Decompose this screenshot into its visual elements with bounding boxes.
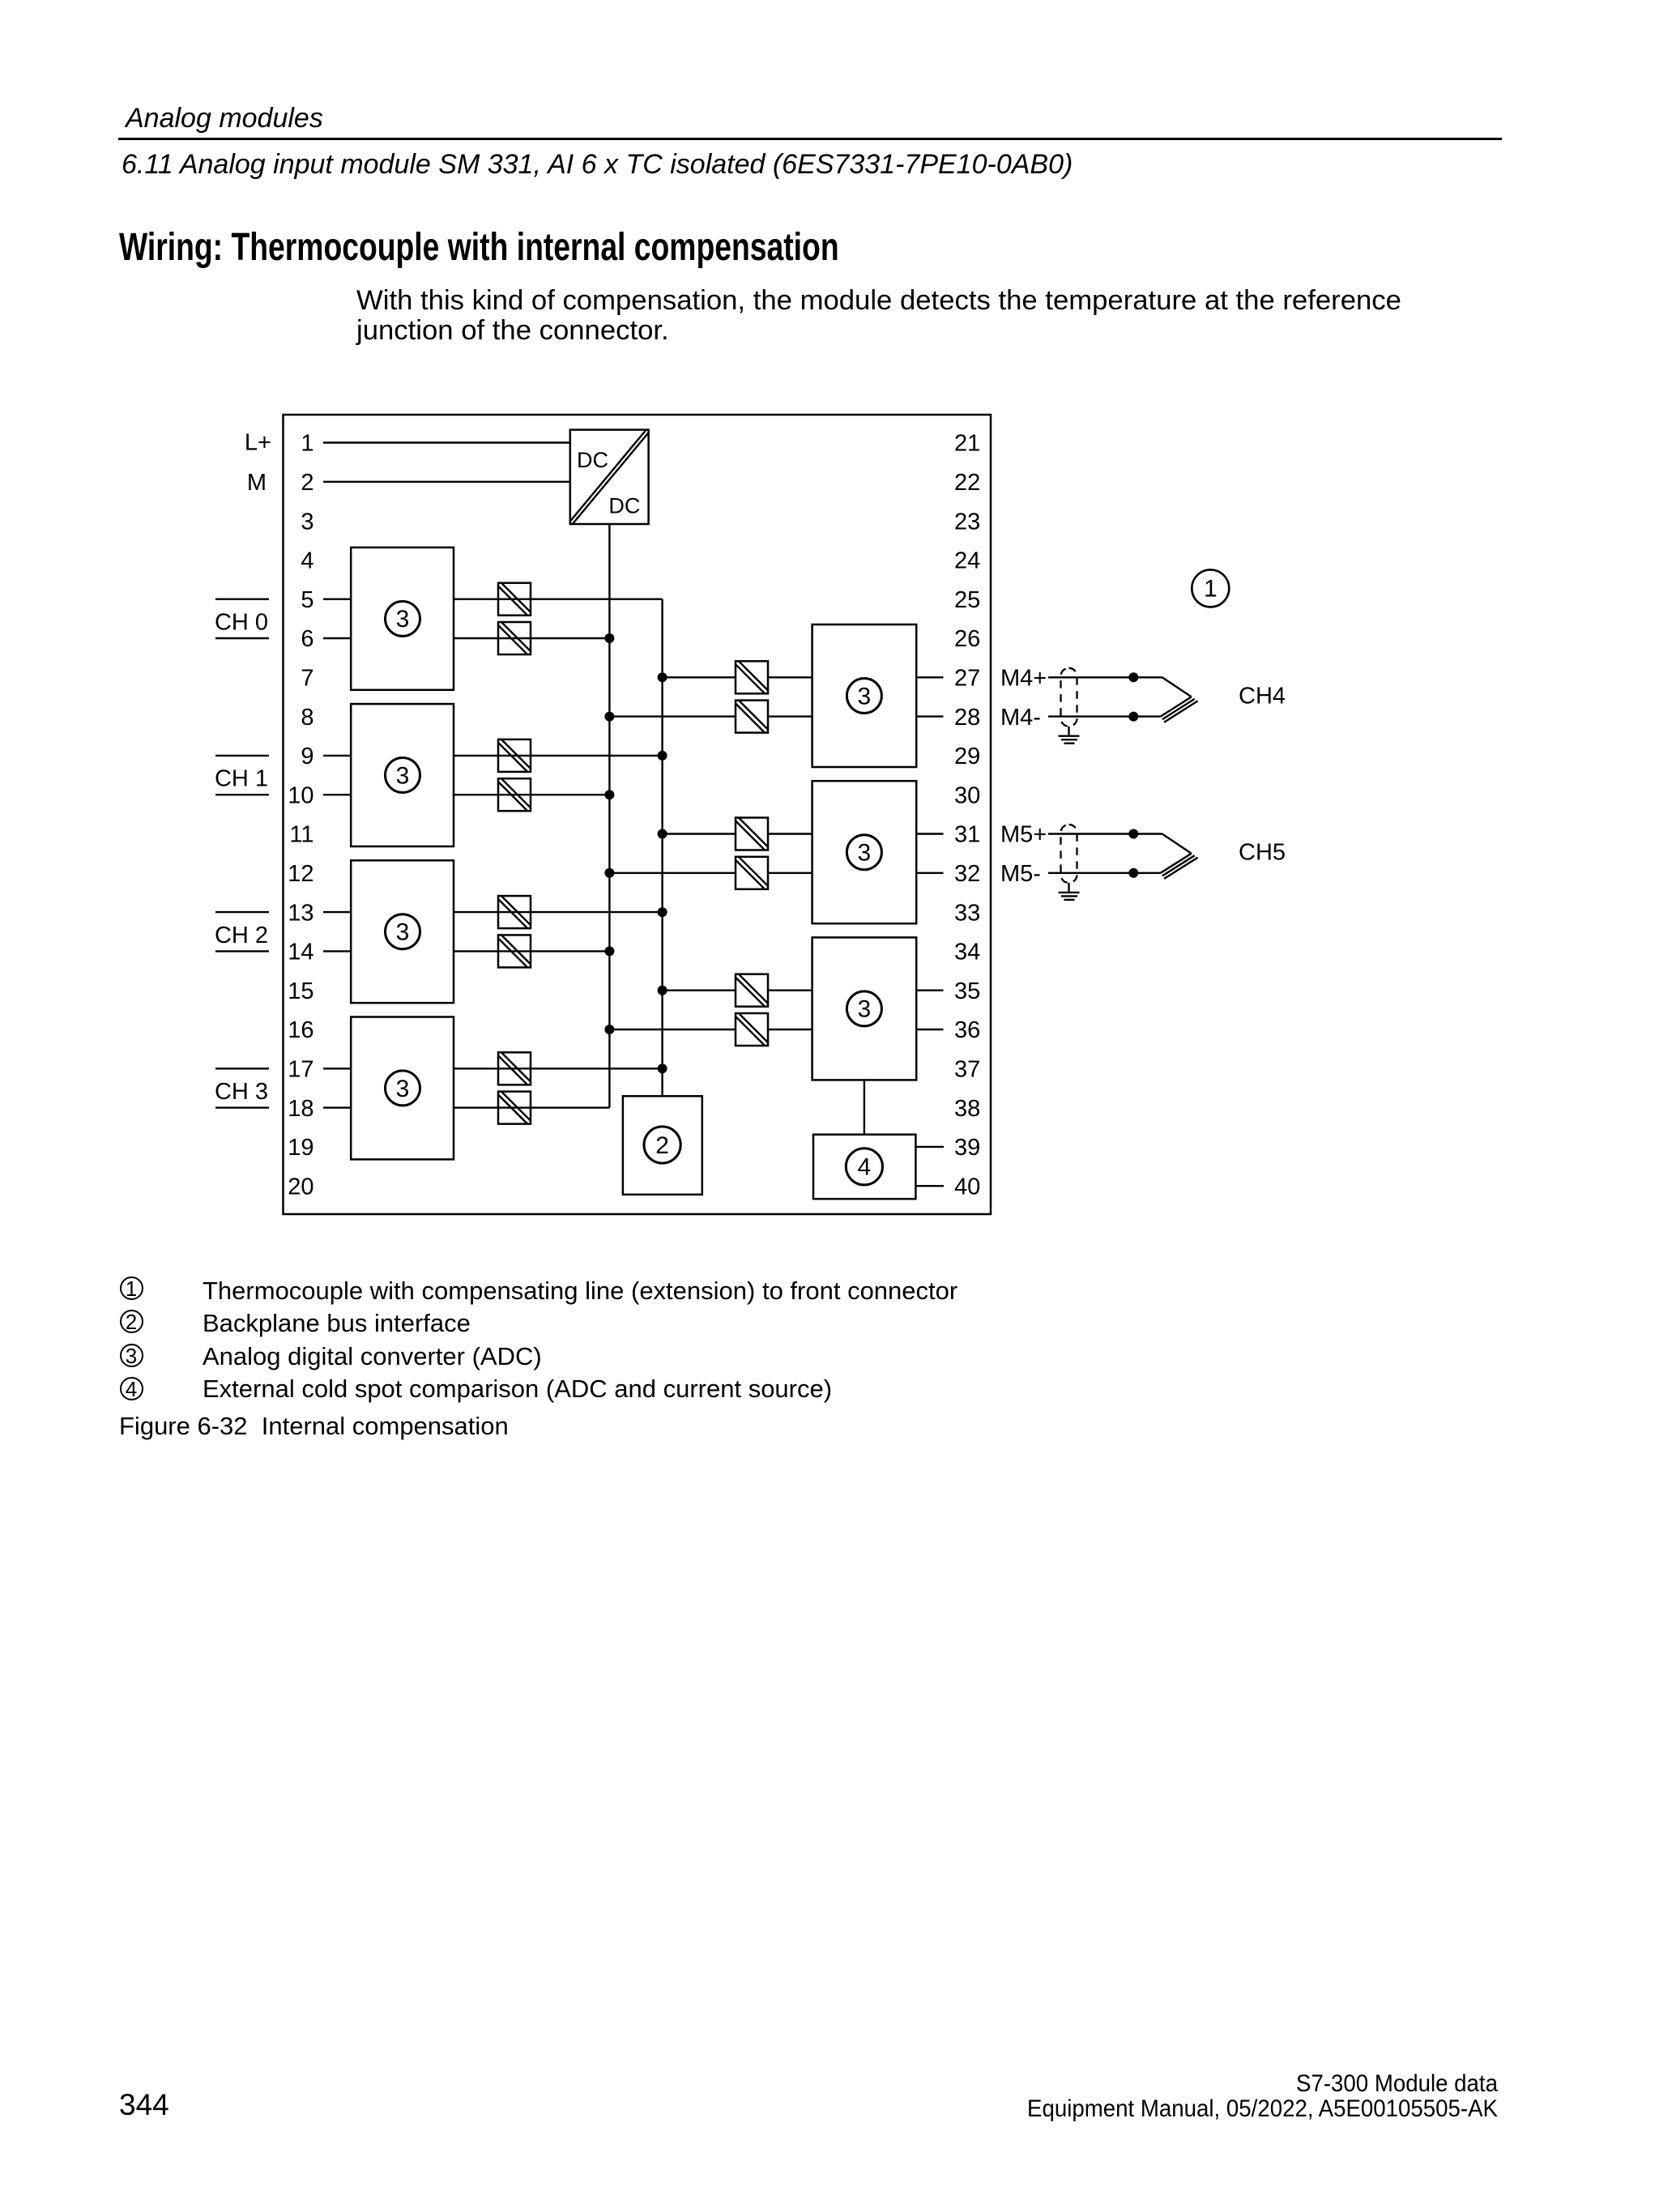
ADC U8 (internal reference) <box>812 937 917 1080</box>
optocoupler pin 13 path <box>498 896 531 928</box>
optocoupler pin 31 path <box>736 818 768 850</box>
ADC U2 symbol 3 <box>386 758 420 793</box>
wire M4- lead <box>1048 715 1161 717</box>
svg-text:CH 0: CH 0 <box>215 610 268 636</box>
svg-text:21: 21 <box>954 431 980 457</box>
svg-text:3: 3 <box>858 996 872 1023</box>
svg-text:4: 4 <box>301 548 313 574</box>
wire M5+ lead <box>1048 833 1162 834</box>
DC/DC converter U5 <box>570 430 649 524</box>
ADC U8 symbol 3 <box>847 991 881 1026</box>
channel label CH 2 <box>215 912 269 951</box>
junction bus A pin 6 row <box>604 633 614 643</box>
svg-text:7: 7 <box>301 666 313 692</box>
cold spot symbol 4 <box>846 1149 882 1185</box>
svg-text:3: 3 <box>858 840 872 867</box>
svg-text:3: 3 <box>301 509 313 535</box>
optocoupler pin 17 path <box>498 1052 531 1085</box>
channel label CH 3 <box>215 1068 269 1107</box>
ADC U4 (CH 3) <box>351 1017 454 1160</box>
stub U8 to pin 35 <box>916 989 943 991</box>
cable shield CH5 (dashed) <box>1061 825 1077 883</box>
svg-text:CH 3: CH 3 <box>215 1079 268 1105</box>
junction bus A pin 32 row <box>604 868 614 878</box>
stub U7 to pin 32 <box>916 872 943 874</box>
svg-text:36: 36 <box>954 1017 980 1043</box>
stub U7 to pin 31 <box>916 833 943 834</box>
wire bus B to U6 upper input <box>663 676 812 678</box>
ADC U2 (CH 1) <box>351 704 454 846</box>
svg-text:24: 24 <box>954 548 980 574</box>
svg-text:14: 14 <box>288 940 313 965</box>
svg-text:33: 33 <box>954 900 980 926</box>
svg-text:3: 3 <box>396 606 410 633</box>
svg-text:37: 37 <box>954 1057 980 1083</box>
svg-text:4: 4 <box>858 1154 872 1181</box>
svg-text:22: 22 <box>954 470 980 496</box>
bus A (DC/DC to pin 18 row) <box>608 524 610 1108</box>
wire bus A to U8 lower input <box>609 1029 812 1030</box>
svg-text:3: 3 <box>396 762 410 789</box>
wire bus A to U7 lower input <box>609 872 812 874</box>
wire pin 9 to U2 <box>323 755 351 757</box>
junction bus A pin 28 row <box>604 712 614 722</box>
svg-text:3: 3 <box>396 919 410 946</box>
wire pin 17 to U4 <box>323 1068 351 1069</box>
ADC U3 symbol 3 <box>386 914 420 949</box>
junction bus B pin 9 row <box>658 751 667 761</box>
junction bus A pin 14 row <box>604 946 614 956</box>
wire bus A to U6 lower input <box>609 715 812 717</box>
svg-text:9: 9 <box>301 744 313 769</box>
svg-text:26: 26 <box>954 626 980 652</box>
wire pin 5 to U1 <box>323 599 351 600</box>
svg-text:28: 28 <box>954 705 980 731</box>
optocoupler pin 36 path <box>736 1013 768 1046</box>
optocoupler pin 18 path <box>498 1092 531 1124</box>
svg-text:2: 2 <box>655 1132 669 1159</box>
svg-text:M4+: M4+ <box>1000 666 1047 692</box>
wire pin 18 to U4 <box>323 1106 351 1108</box>
stub U6 to pin 27 <box>916 676 943 678</box>
ground CH4 shield <box>1059 727 1080 744</box>
svg-text:1: 1 <box>301 431 313 457</box>
ADC U1 symbol 3 <box>386 601 420 636</box>
svg-text:M: M <box>247 470 267 496</box>
bus B (pin 5 row to backplane interface) <box>661 599 663 1097</box>
svg-text:CH 1: CH 1 <box>215 766 268 792</box>
svg-text:2: 2 <box>301 470 313 496</box>
ADC U1 (CH 0) <box>351 548 454 690</box>
wire pin 2 to DC/DC <box>323 481 570 483</box>
ADC U7 (CH 5) <box>812 781 917 923</box>
wire U8 to cold spot block U10 <box>864 1080 865 1134</box>
svg-text:M4-: M4- <box>1000 705 1041 731</box>
svg-text:38: 38 <box>954 1096 980 1122</box>
wire U2 lower output to bus A <box>454 794 609 795</box>
ADC U7 symbol 3 <box>847 835 881 870</box>
svg-text:23: 23 <box>954 509 980 535</box>
svg-text:8: 8 <box>301 705 313 731</box>
junction M5+ lead <box>1128 829 1138 839</box>
wire pin 13 to U3 <box>323 911 351 913</box>
legend callout 1 in diagram <box>1192 569 1229 607</box>
thermocouple CH5 hot junction <box>1161 834 1198 879</box>
optocoupler pin 35 path <box>736 974 768 1007</box>
optocoupler pin 28 path <box>736 701 768 733</box>
svg-text:3: 3 <box>396 1076 410 1102</box>
junction bus B pin 31 row <box>658 829 667 839</box>
wire pin 10 to U2 <box>323 794 351 795</box>
wire pin 6 to U1 <box>323 637 351 639</box>
wire U1 upper output to bus B <box>454 599 663 600</box>
svg-text:39: 39 <box>954 1135 980 1161</box>
ADC U6 symbol 3 <box>847 679 881 714</box>
ADC U3 (CH 2) <box>351 860 454 1003</box>
svg-text:DC: DC <box>577 448 608 472</box>
svg-text:29: 29 <box>954 744 980 769</box>
optocoupler pin 27 path <box>736 661 768 693</box>
svg-text:19: 19 <box>288 1135 313 1161</box>
channel label CH 0 <box>215 599 269 638</box>
backplane bus interface U9 <box>623 1096 702 1195</box>
svg-text:5: 5 <box>301 587 313 613</box>
svg-text:40: 40 <box>954 1174 980 1200</box>
optocoupler pin 9 path <box>498 739 531 772</box>
svg-text:30: 30 <box>954 782 980 808</box>
wire U4 lower output to bus A <box>454 1106 609 1108</box>
thermocouple CH4 hot junction <box>1161 677 1198 722</box>
svg-text:CH 2: CH 2 <box>215 923 268 948</box>
optocoupler pin 5 path <box>498 583 531 616</box>
svg-text:20: 20 <box>288 1174 313 1200</box>
svg-text:M5+: M5+ <box>1000 822 1047 848</box>
backplane interface symbol 2 <box>644 1127 680 1163</box>
junction bus B pin 17 row <box>658 1063 667 1073</box>
junction bus B pin 35 row <box>658 986 667 995</box>
wire M5- lead <box>1048 872 1161 874</box>
module frame <box>284 415 992 1214</box>
wire bus B to U8 upper input <box>663 989 812 991</box>
svg-text:27: 27 <box>954 666 980 692</box>
junction M4+ lead <box>1128 672 1138 682</box>
svg-text:10: 10 <box>288 782 313 808</box>
svg-text:31: 31 <box>954 822 980 848</box>
junction bus A pin 10 row <box>604 790 614 799</box>
ground CH5 shield <box>1059 883 1080 900</box>
wire M4+ lead <box>1048 676 1162 678</box>
svg-text:L+: L+ <box>245 430 271 456</box>
svg-text:DC: DC <box>608 494 640 518</box>
optocoupler pin 32 path <box>736 857 768 889</box>
wire U3 lower output to bus A <box>454 950 609 952</box>
junction bus B pin 13 row <box>658 907 667 917</box>
svg-text:3: 3 <box>858 683 872 710</box>
stub U6 to pin 28 <box>916 715 943 717</box>
svg-text:34: 34 <box>954 940 980 965</box>
svg-text:1: 1 <box>1204 576 1218 603</box>
wire pin 1 to DC/DC <box>323 441 570 443</box>
ADC U6 (CH 4) <box>812 624 917 767</box>
wire bus B to U7 upper input <box>663 833 812 834</box>
svg-text:CH4: CH4 <box>1239 683 1286 709</box>
junction M5- lead <box>1128 868 1138 878</box>
svg-text:11: 11 <box>289 822 313 848</box>
optocoupler pin 6 path <box>498 622 531 654</box>
ADC U4 symbol 3 <box>386 1071 420 1106</box>
svg-text:18: 18 <box>288 1096 313 1122</box>
wire U4 upper output to bus B <box>454 1068 663 1069</box>
svg-text:32: 32 <box>954 861 980 887</box>
svg-text:17: 17 <box>288 1057 313 1083</box>
optocoupler pin 10 path <box>498 778 531 811</box>
junction M4- lead <box>1128 712 1138 722</box>
wire pin 14 to U3 <box>323 950 351 952</box>
optocoupler pin 14 path <box>498 935 531 967</box>
svg-text:35: 35 <box>954 978 980 1004</box>
channel label CH 1 <box>215 756 269 795</box>
svg-text:6: 6 <box>301 626 313 652</box>
svg-text:16: 16 <box>288 1017 313 1043</box>
svg-text:13: 13 <box>288 900 313 926</box>
svg-text:12: 12 <box>288 861 313 887</box>
cold spot comparison U10 <box>813 1135 915 1200</box>
wire U3 upper output to bus B <box>454 911 663 913</box>
svg-text:M5-: M5- <box>1000 861 1041 887</box>
wire U1 lower output to bus A <box>454 637 609 639</box>
wire U2 upper output to bus B <box>454 755 663 757</box>
junction bus B pin 27 row <box>658 672 667 682</box>
cable shield CH4 (dashed) <box>1061 668 1077 727</box>
svg-text:15: 15 <box>288 978 313 1004</box>
junction bus A pin 36 row <box>604 1025 614 1034</box>
svg-text:CH5: CH5 <box>1239 840 1286 866</box>
stub U10 to pin 40 <box>915 1185 944 1187</box>
svg-text:25: 25 <box>954 587 980 613</box>
stub U10 to pin 39 <box>915 1146 944 1148</box>
stub U8 to pin 36 <box>916 1029 943 1030</box>
